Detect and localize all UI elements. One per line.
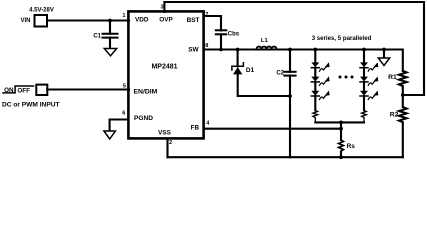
node C2 top junction — [288, 48, 292, 52]
wire SW pin 8 to inductor — [204, 48, 257, 50]
svg-text:PGND: PGND — [134, 115, 153, 122]
svg-text:OFF: OFF — [17, 88, 30, 95]
svg-text:R1: R1 — [388, 74, 397, 81]
svg-text:DC or PWM INPUT: DC or PWM INPUT — [2, 101, 60, 108]
diode D1 (Schottky) — [237, 50, 239, 67]
wire bottom ground rail — [168, 156, 403, 158]
node LED string 2 top — [362, 48, 366, 52]
resistor (ballast, string 1) — [313, 110, 318, 122]
svg-text:MP2481: MP2481 — [151, 63, 177, 70]
resistor R2 — [399, 95, 407, 157]
wire BST pin 7 to Cbs — [204, 16, 221, 30]
ground (PGND) — [104, 131, 116, 139]
wire VIN to VDD pin 1 — [48, 19, 129, 21]
svg-text:VSS: VSS — [158, 130, 172, 137]
node FB junction — [339, 127, 343, 131]
wire L1 to output rail and corner down to R1 — [277, 50, 403, 71]
EN terminal box — [36, 85, 47, 95]
svg-text:ON: ON — [4, 87, 14, 94]
svg-text:1: 1 — [122, 13, 125, 19]
svg-text:6: 6 — [122, 111, 125, 117]
resistor Rs — [339, 140, 344, 152]
node Rs bottom junction — [339, 155, 343, 159]
svg-text:3 series, 5 paralleled: 3 series, 5 paralleled — [312, 35, 372, 42]
svg-text:OVP: OVP — [159, 17, 173, 24]
svg-text:VDD: VDD — [135, 17, 149, 24]
node bus/Rs junction — [339, 121, 343, 125]
node D1 anode / C2 junction — [288, 94, 292, 98]
svg-text:D1: D1 — [246, 67, 255, 74]
svg-text:FB: FB — [191, 125, 200, 132]
resistor (ballast, string 2) — [362, 110, 367, 122]
capacitor Cbs — [216, 29, 227, 31]
node LED string 1 top — [313, 48, 317, 52]
svg-text:L1: L1 — [261, 38, 269, 44]
svg-text:C1: C1 — [93, 34, 101, 40]
svg-text:8: 8 — [205, 43, 208, 49]
svg-text:Cbs: Cbs — [228, 31, 240, 37]
svg-text:R2: R2 — [390, 112, 399, 119]
wire bus junction down through FB to Rs — [340, 122, 342, 140]
node R1/R2 junction — [401, 93, 405, 97]
capacitor C1 — [109, 21, 111, 34]
dots (5 parallel ellipsis) — [339, 76, 342, 79]
wire OVP pin 3 up and along top to R1/R2 node — [164, 2, 424, 95]
wire string1 bottom bus — [315, 121, 364, 123]
node Cbs/SW junction — [219, 48, 223, 52]
ground (C1) — [104, 49, 116, 56]
svg-text:3: 3 — [160, 5, 163, 11]
svg-text:VIN: VIN — [20, 18, 30, 24]
LED string 1 (3 LEDs) — [311, 50, 329, 111]
svg-text:Rs: Rs — [347, 143, 356, 150]
VIN terminal box — [35, 15, 48, 27]
node D1 junction — [236, 48, 240, 52]
ground (output rail) — [383, 50, 385, 59]
node C1 junction — [108, 19, 112, 23]
svg-text:4.5V-28V: 4.5V-28V — [29, 8, 54, 14]
EN waveform ON/OFF — [3, 86, 34, 93]
node ground arrow on output rail — [382, 48, 386, 52]
resistor R1 — [399, 71, 407, 95]
svg-text:BST: BST — [187, 17, 200, 24]
LED string 2 (3 LEDs) — [360, 50, 378, 111]
wire EN box to pin 5 — [47, 88, 129, 90]
op-amp U1 MP2481 IC body — [128, 11, 203, 138]
svg-text:EN/DIM: EN/DIM — [134, 89, 158, 96]
capacitor C2 — [289, 50, 291, 72]
svg-text:2: 2 — [169, 140, 172, 146]
wire VSS pin 2 down to bottom rail — [166, 139, 168, 157]
wire PGND pin 6 to ground — [110, 120, 128, 132]
svg-text:SW: SW — [188, 47, 199, 54]
wire FB pin 4 to Rs top — [204, 128, 341, 130]
svg-text:C2: C2 — [276, 70, 284, 76]
